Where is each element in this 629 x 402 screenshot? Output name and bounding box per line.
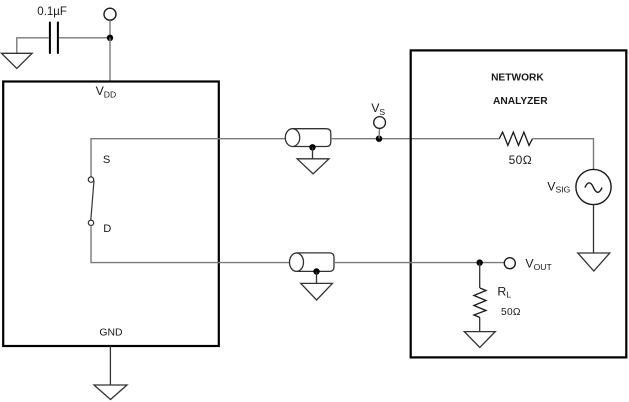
wire switch S lead: [91, 139, 294, 177]
junction dot coax lower shield: [313, 268, 319, 274]
capacitor C1: [49, 22, 51, 54]
svg-text:D: D: [103, 223, 111, 235]
wire coax upper to resistor: [331, 138, 500, 140]
switch S contact: [88, 177, 93, 182]
terminal VDD circle: [104, 8, 116, 20]
wire VOUT node to RL: [479, 263, 481, 288]
svg-text:S: S: [103, 154, 110, 166]
wire VS stem: [378, 128, 380, 138]
svg-text:RL: RL: [497, 284, 511, 299]
svg-text:50Ω: 50Ω: [509, 153, 533, 167]
svg-text:GND: GND: [99, 328, 122, 339]
wire RL to ground: [479, 318, 481, 332]
wire capacitor to VDD junction: [59, 37, 110, 39]
NETWORK ANALYZER box: [411, 50, 627, 357]
ground (coax lower): [301, 283, 333, 300]
ground (RL): [464, 332, 495, 348]
ground (coax upper): [297, 159, 329, 174]
resistor 50ohm source: [499, 132, 532, 145]
wire resistor to VSIG: [533, 139, 594, 170]
resistor RL: [474, 288, 486, 318]
source VSIG: [576, 169, 611, 204]
wire capacitor to ground: [17, 38, 49, 54]
wire switch D lead: [91, 226, 297, 263]
terminal VS circle: [374, 117, 386, 129]
junction dot coax upper shield: [309, 144, 315, 150]
svg-text:50Ω: 50Ω: [501, 307, 521, 318]
wire VDD junction to DUT box: [109, 38, 111, 82]
switch D contact: [88, 220, 93, 225]
svg-text:VS: VS: [371, 101, 385, 117]
wire coax lower shield stem: [316, 272, 318, 284]
svg-text:0.1µF: 0.1µF: [37, 6, 67, 18]
ground (capacitor): [2, 53, 33, 68]
junction dot VDD: [107, 35, 113, 41]
svg-text:ANALYZER: ANALYZER: [493, 96, 548, 107]
wire coax upper shield stem: [312, 147, 314, 159]
coax cable upper: [293, 129, 331, 147]
wire VSIG to ground: [593, 205, 595, 253]
switch arm: [91, 181, 94, 220]
svg-text:VSIG: VSIG: [547, 179, 570, 194]
junction dot VOUT node: [477, 259, 483, 265]
svg-text:VDD: VDD: [96, 84, 117, 99]
svg-text:VOUT: VOUT: [525, 257, 552, 272]
wire VDD terminal stem: [109, 20, 111, 37]
wire coax lower to VOUT: [334, 262, 505, 264]
ground (VSIG): [578, 253, 610, 271]
terminal VOUT circle: [504, 258, 515, 269]
junction dot VS: [376, 136, 382, 142]
ground (DUT GND): [94, 385, 127, 400]
wire GND stem below DUT: [109, 346, 111, 385]
svg-text:NETWORK: NETWORK: [491, 73, 544, 84]
DUT box: [3, 82, 219, 347]
coax cable lower: [297, 253, 335, 272]
